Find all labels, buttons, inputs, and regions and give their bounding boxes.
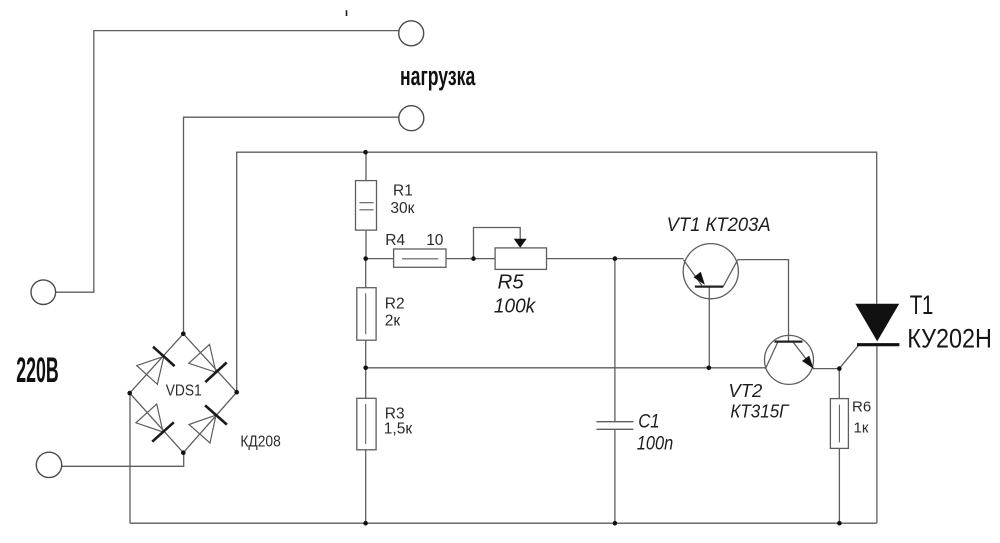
svg-text:100n: 100n: [637, 432, 673, 454]
svg-text:КУ202Н: КУ202Н: [907, 324, 992, 354]
svg-text:VT2: VT2: [728, 380, 763, 401]
svg-text:2к: 2к: [385, 313, 401, 330]
svg-text:VT1 КТ203А: VT1 КТ203А: [667, 214, 771, 235]
svg-text:нагрузка: нагрузка: [400, 60, 475, 91]
svg-text:30к: 30к: [390, 200, 414, 217]
svg-text:T1: T1: [910, 291, 934, 321]
svg-text:R5: R5: [498, 271, 525, 294]
svg-text:10: 10: [426, 232, 444, 249]
svg-text:100k: 100k: [494, 295, 536, 318]
svg-text:VDS1: VDS1: [166, 383, 202, 400]
svg-text:C1: C1: [638, 410, 659, 431]
svg-text:КТ315Г: КТ315Г: [730, 401, 789, 422]
svg-text:220В: 220В: [16, 350, 58, 389]
svg-text:1к: 1к: [854, 420, 869, 437]
svg-text:R1: R1: [393, 182, 413, 199]
svg-text:КД208: КД208: [240, 434, 280, 451]
svg-text:1,5к: 1,5к: [384, 421, 413, 438]
svg-text:R2: R2: [385, 296, 405, 313]
svg-text:R6: R6: [852, 399, 871, 416]
svg-text:R4: R4: [385, 232, 405, 249]
